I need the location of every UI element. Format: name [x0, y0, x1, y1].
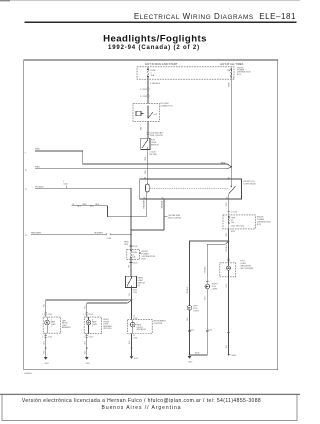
svg-text:YEL/BLK: YEL/BLK [161, 200, 163, 208]
splice S106 node [189, 354, 191, 356]
svg-text:G117: G117 [188, 362, 192, 364]
right fog lamp [205, 284, 210, 355]
node inside DRL box [147, 106, 148, 107]
park light switch contact [127, 276, 132, 287]
svg-text:YEL: YEL [128, 265, 130, 268]
svg-text:S106: S106 [195, 353, 199, 355]
svg-text:2: 2 [233, 78, 234, 80]
left park bulb [45, 317, 50, 333]
svg-text:30: 30 [228, 177, 230, 179]
left park lamp branch wire [45, 300, 47, 357]
relay internal dashed link [150, 188, 229, 190]
svg-text:YEL: YEL [43, 304, 45, 307]
connector tick above left fuse box [130, 245, 133, 247]
wire right fog to splice [190, 354, 208, 356]
svg-text:YEL: YEL [145, 170, 147, 174]
junction node redwht/main [130, 233, 132, 235]
connector tick below left fuse box [130, 262, 133, 264]
DRL coil tie [141, 113, 143, 115]
wire L1 [35, 151, 231, 167]
svg-text:C100: C100 [63, 184, 68, 186]
svg-text:C116: C116 [208, 329, 212, 331]
wire fuse F5 to DRL connector [147, 79, 149, 103]
connector tick above power box [228, 210, 231, 212]
indicator connector [227, 259, 230, 261]
svg-text:86: 86 [144, 177, 146, 179]
svg-text:1: 1 [83, 314, 84, 316]
front power distribution box left (dashed) [127, 249, 140, 259]
svg-text:1992-94 (Canada) (2 of 2): 1992-94 (Canada) (2 of 2) [108, 45, 200, 51]
svg-text:C100: C100 [133, 263, 138, 265]
wire RED feed to relay (right vertical) [230, 79, 232, 179]
svg-text:1: 1 [42, 314, 43, 316]
svg-text:S210: S210 [231, 231, 235, 233]
svg-text:C104: C104 [48, 314, 52, 316]
svg-text:(W/O DRL): (W/O DRL) [103, 328, 112, 330]
cluster lamp branch wire [131, 300, 133, 356]
cluster illumination bulb [130, 319, 135, 333]
svg-text:2: 2 [92, 326, 93, 328]
relay pin 87 [163, 199, 165, 230]
relay coil exit pin 85 [145, 192, 147, 199]
svg-text:YEL: YEL [129, 293, 131, 296]
svg-text:C115: C115 [190, 329, 194, 331]
svg-text:2: 2 [42, 336, 43, 338]
connector C104 lower [44, 335, 47, 337]
svg-text:8 RED/BLK: 8 RED/BLK [150, 83, 161, 85]
svg-text:(IN CLUSTER): (IN CLUSTER) [241, 268, 254, 270]
svg-text:RED: RED [229, 82, 231, 87]
left park light assembly dashed box [43, 317, 61, 333]
connector C100a [147, 132, 150, 134]
park bus wire 2 [87, 300, 132, 303]
park light switch box [126, 276, 137, 287]
svg-text:RED: RED [35, 166, 40, 168]
fog indicator bulb [227, 263, 231, 277]
wire YEL/BLK from pin 87 [131, 229, 164, 231]
splice S76 dot-arrow [91, 205, 94, 207]
junction node on relay feed [231, 166, 233, 168]
splice node left park [45, 347, 46, 348]
svg-text:12: 12 [25, 235, 27, 237]
svg-text:G101: G101 [44, 363, 48, 365]
svg-text:HOT AT ALL TIMES: HOT AT ALL TIMES [220, 62, 243, 66]
wire to left fog light [190, 241, 229, 305]
wire power box to junction [228, 229, 230, 241]
svg-text:LIGHT: LIGHT [193, 310, 199, 312]
relay coil [146, 184, 150, 192]
fog indicator dashed box [220, 263, 236, 277]
connector C126 [147, 95, 150, 97]
svg-text:1 C126: 1 C126 [140, 96, 146, 98]
svg-text:INDICATOR: INDICATOR [137, 328, 147, 331]
park bus wire 1 [46, 299, 132, 301]
wire L2 [35, 167, 231, 169]
page top scan edge [0, 0, 300, 2]
svg-text:1 C235: 1 C235 [140, 89, 146, 91]
svg-text:CONNECTOR: CONNECTOR [160, 105, 173, 107]
fog light switch S1 contact [142, 138, 148, 149]
svg-text:C230: C230 [133, 337, 137, 339]
DRL switch contact [148, 106, 153, 118]
fuse panel dashed box [137, 67, 234, 79]
front power distribution box right (dashed) [223, 215, 255, 229]
svg-text:11: 11 [25, 189, 27, 191]
fuse F5 wire stub [147, 67, 149, 79]
junction node fog feed [228, 240, 230, 242]
wire relay 87a to power dist box [228, 199, 230, 215]
svg-text:SWITCH: SWITCH [151, 145, 159, 147]
svg-text:2: 2 [83, 336, 84, 338]
relay switch node [231, 186, 232, 187]
connector C104 [44, 313, 47, 315]
connector C105 lower [85, 335, 88, 337]
connector C105 [85, 313, 88, 315]
splice node right park [86, 347, 87, 348]
svg-text:Headlights/Foglights: Headlights/Foglights [103, 33, 207, 44]
splice node to G100 [228, 354, 230, 356]
svg-text:14: 14 [72, 204, 74, 206]
svg-text:C100: C100 [133, 292, 137, 294]
svg-text:C105: C105 [89, 314, 93, 316]
splice node cluster [131, 347, 132, 348]
right park bulb [86, 317, 91, 334]
svg-text:YEL/BLK: YEL/BLK [187, 286, 189, 294]
svg-text:C100 (W/O DRL): C100 (W/O DRL) [231, 225, 245, 227]
svg-text:10: 10 [25, 169, 27, 171]
wire RED/WHT from pin 85 [72, 199, 147, 217]
svg-text:RED: RED [82, 204, 87, 206]
svg-text:YEL/BLK: YEL/BLK [205, 265, 207, 273]
splice tick to label [229, 354, 231, 356]
svg-text:(W/ DRL): (W/ DRL) [149, 154, 157, 156]
svg-text:(P): (P) [138, 285, 141, 287]
junction node main/yelblk [130, 229, 132, 231]
fuse F5 [147, 69, 148, 77]
pin 87 dest label tick [164, 215, 168, 217]
svg-text:RED/WHT: RED/WHT [144, 199, 146, 209]
svg-text:YEL: YEL [145, 157, 147, 161]
wire DRL module to C100 [147, 121, 149, 138]
relay switch feed [230, 179, 232, 186]
park switch terminals [131, 278, 132, 279]
indicator lower connector tick [227, 331, 230, 333]
splice S75 dot-arrow [78, 205, 81, 207]
svg-text:9: 9 [25, 153, 26, 155]
right fog connector tick [206, 330, 209, 332]
svg-text:1: 1 [63, 181, 64, 183]
svg-text:87: 87 [162, 197, 164, 199]
fog light switch terminals [147, 140, 148, 141]
svg-text:87: 87 [226, 197, 228, 199]
wire park switch to bus [131, 288, 133, 300]
left fog connector tick [188, 330, 191, 332]
DRL coil [136, 111, 141, 115]
fuse F8 wire stub [230, 67, 232, 79]
fog light switch S1 box [141, 138, 150, 149]
connector C235 [147, 88, 150, 90]
svg-text:C100: C100 [133, 246, 138, 248]
relay coil entry [147, 179, 149, 184]
svg-text:HOT IN RUN AND START: HOT IN RUN AND START [145, 62, 178, 66]
fuse F22 [131, 249, 132, 259]
wire RED/WHT park feed [31, 233, 131, 235]
svg-text:LE0402: LE0402 [24, 373, 32, 375]
ground G117 [188, 356, 192, 359]
relay K1 box [140, 179, 242, 199]
right park lamp branch wire [86, 303, 88, 357]
svg-text:G110: G110 [134, 358, 138, 360]
svg-text:CLUSTER: CLUSTER [153, 323, 162, 325]
svg-text:RED: RED [35, 149, 40, 151]
ground G110 [130, 356, 134, 359]
power dist box left label [139, 252, 141, 254]
svg-text:RUN. LIGHTS): RUN. LIGHTS) [168, 217, 181, 219]
junction node park bus [131, 299, 133, 301]
relay switch contact [229, 186, 236, 199]
svg-text:ELECTRICAL WIRING DIAGRAMS EL: ELECTRICAL WIRING DIAGRAMS ELE–181 [134, 12, 296, 21]
ground G101 [44, 357, 48, 360]
footer box [2, 395, 297, 421]
wire fuse to park switch [130, 259, 132, 276]
svg-text:LIGHT RELAY: LIGHT RELAY [244, 183, 257, 186]
ground G102 [85, 357, 89, 360]
header rule [25, 21, 297, 23]
svg-text:C104: C104 [48, 336, 52, 338]
connector C100b [106, 233, 110, 235]
svg-text:Buenos Aires // Argentina: Buenos Aires // Argentina [102, 405, 182, 411]
svg-text:C100: C100 [107, 238, 112, 240]
svg-text:G102: G102 [86, 363, 90, 365]
junction node main/redwht [130, 216, 132, 218]
svg-text:OFF: OFF [153, 114, 156, 116]
svg-text:YEL/BLK: YEL/BLK [226, 244, 228, 252]
svg-text:RED: RED [221, 162, 226, 164]
svg-text:YEL: YEL [84, 306, 86, 309]
wire indicator to ground splice [228, 277, 230, 355]
svg-text:G100: G100 [232, 355, 237, 357]
svg-text:2: 2 [51, 326, 52, 328]
wire fog switch to relay coil [147, 150, 149, 179]
wire to right fog light [207, 241, 228, 284]
svg-text:Versión electrónica licenciada: Versión electrónica licenciada a Hernan … [22, 398, 261, 404]
right park light assembly dashed box [84, 317, 101, 334]
connector C100 tick on yel/blk bus [66, 185, 68, 188]
fuse F8 [231, 69, 232, 77]
fuse F18 [228, 215, 229, 229]
wire junction to fog indicator [228, 241, 230, 263]
instrument cluster dashed box (park indicator) [128, 319, 153, 333]
svg-text:2 C126: 2 C126 [231, 211, 237, 213]
left fog lamp [187, 306, 192, 356]
wire YEL/BLK bus [35, 188, 131, 249]
svg-text:C105: C105 [89, 336, 93, 338]
svg-text:YEL: YEL [140, 127, 142, 131]
svg-text:LIGHT: LIGHT [212, 289, 218, 291]
DRL module dashed box [133, 103, 159, 121]
right fog connector tick [206, 280, 209, 282]
svg-text:RUN. LIGHTS): RUN. LIGHTS) [150, 135, 163, 137]
diagram frame [24, 60, 278, 370]
svg-text:RED: RED [95, 204, 100, 206]
svg-text:85: 85 [144, 197, 146, 199]
svg-text:ASSEMBLY: ASSEMBLY [62, 326, 72, 329]
